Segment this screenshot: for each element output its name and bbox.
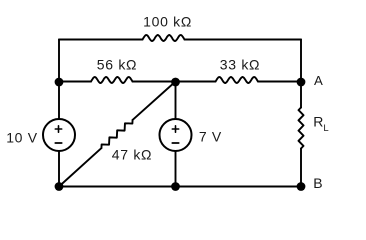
svg-text:A: A: [314, 73, 323, 88]
svg-text:10 V: 10 V: [6, 130, 38, 146]
svg-text:47 kΩ: 47 kΩ: [112, 146, 152, 162]
svg-text:100 kΩ: 100 kΩ: [143, 14, 192, 30]
svg-text:56 kΩ: 56 kΩ: [97, 57, 137, 73]
svg-text:RL: RL: [313, 113, 328, 133]
svg-text:33 kΩ: 33 kΩ: [220, 57, 260, 73]
svg-text:7 V: 7 V: [199, 129, 222, 145]
svg-text:B: B: [313, 175, 322, 191]
